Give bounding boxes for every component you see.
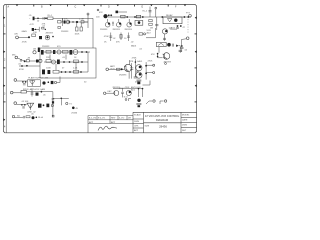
node (45, 17, 47, 19)
wire vertical (87, 52, 89, 72)
box (28, 80, 41, 87)
bracket to right (143, 81, 151, 86)
svg-text:2N3393: 2N3393 (170, 29, 178, 31)
svg-text:B 4-171: B 4-171 (98, 118, 106, 120)
transistor Q22 (126, 91, 131, 96)
wire (109, 68, 125, 70)
resistor R20 (46, 50, 51, 53)
dashed wire (187, 19, 189, 34)
svg-text:47K: 47K (116, 42, 120, 44)
resistor R23 (53, 70, 59, 73)
svg-text:29436: 29436 (71, 112, 78, 114)
capacitor (172, 44, 173, 47)
wire (128, 19, 130, 22)
wire (18, 58, 25, 61)
capacitor (23, 84, 26, 85)
wire (27, 92, 53, 117)
svg-text:C: C (75, 5, 77, 8)
wire (118, 19, 120, 22)
resistor R5 (80, 23, 82, 27)
svg-text:2N3393: 2N3393 (61, 31, 69, 33)
node (35, 29, 36, 30)
terminal (66, 102, 68, 104)
svg-text:2N3393: 2N3393 (46, 33, 54, 35)
svg-text:100K: 100K (46, 68, 51, 70)
wire (146, 64, 153, 66)
node (157, 53, 159, 55)
svg-text:RL-A: RL-A (38, 116, 43, 119)
terminal (165, 63, 167, 65)
node (45, 29, 46, 30)
svg-text:D: D (108, 5, 110, 8)
transistor Q1 (66, 20, 70, 24)
svg-text:470K: 470K (135, 81, 140, 83)
wire emitter down (128, 72, 130, 79)
svg-text:ANTI: ANTI (110, 65, 115, 68)
zone tick marks top (16, 5, 186, 7)
terminal E9 (164, 100, 166, 102)
svg-text:MIC: MIC (12, 55, 16, 57)
svg-text:29436: 29436 (159, 124, 167, 128)
module box (40, 48, 96, 78)
transistor dot (42, 81, 45, 84)
node (134, 16, 136, 18)
node (52, 36, 54, 38)
node (157, 56, 159, 58)
capacitor blob (137, 82, 140, 85)
wire (182, 39, 187, 45)
node (76, 21, 78, 23)
capacitor C9a (57, 60, 60, 65)
node (61, 71, 63, 73)
transistor Q6 (105, 22, 110, 27)
svg-text:470K: 470K (104, 36, 109, 38)
svg-text:2.2K: 2.2K (73, 68, 78, 70)
svg-text:DIAGRAM: DIAGRAM (156, 118, 168, 122)
border frame inner left line (5, 5, 7, 133)
capacitor C5a (116, 11, 119, 14)
capacitor (180, 47, 183, 48)
wire (53, 18, 93, 48)
zone numbers left (4, 25, 6, 129)
svg-text:APP: APP (111, 121, 116, 124)
wire (18, 36, 29, 38)
svg-text:.05 10K: .05 10K (21, 101, 29, 103)
node (25, 81, 27, 83)
wire stub (118, 11, 127, 13)
svg-text:47K: 47K (130, 61, 134, 63)
capacitor C9 (42, 70, 45, 75)
capacitor blob (138, 105, 141, 107)
node (43, 104, 45, 106)
wire branch (53, 97, 69, 99)
capacitor between (136, 71, 139, 72)
node (135, 61, 137, 63)
capacitor blob (38, 48, 40, 53)
node (126, 16, 128, 18)
wire (13, 92, 21, 94)
wire (44, 61, 88, 63)
node (86, 51, 88, 53)
svg-text:SCALE: SCALE (134, 114, 141, 117)
capacitor C4 (110, 14, 112, 16)
capacitor C2b (39, 36, 42, 39)
node (121, 68, 123, 70)
resistor R28 (26, 116, 30, 118)
transistor dot (72, 107, 75, 110)
svg-text:N.O.: N.O. (124, 97, 129, 99)
diode inside (167, 19, 172, 22)
transistor dot (137, 99, 140, 102)
svg-text:6AU6: 6AU6 (131, 44, 137, 47)
wire stub 1 (146, 101, 152, 104)
transistor Q10 (162, 29, 167, 34)
svg-text:2N3393: 2N3393 (113, 29, 121, 31)
wire link rows in module (49, 55, 51, 60)
resistor R22b (74, 60, 79, 63)
capacitor C3 (108, 14, 110, 16)
transistor ring (33, 51, 36, 54)
svg-text:SPKR: SPKR (23, 89, 29, 91)
wire (106, 92, 114, 94)
transistor dot inside (174, 19, 177, 22)
node (161, 16, 163, 18)
border frame outer (3, 5, 196, 133)
node (81, 61, 83, 63)
svg-text:1M: 1M (150, 28, 153, 30)
svg-text:2N3393: 2N3393 (100, 29, 108, 31)
capacitor blob (46, 104, 49, 108)
node (72, 21, 73, 22)
anti-trip box T1 (163, 17, 182, 24)
transistor dot (32, 116, 35, 119)
capacitor (23, 116, 24, 118)
resistor R19 (26, 60, 29, 62)
terminal E7 (12, 115, 14, 117)
svg-text:4.7K: 4.7K (30, 24, 35, 26)
transistor Q17 (163, 53, 170, 60)
node (24, 60, 26, 62)
capacitor bottom (137, 80, 142, 81)
svg-text:100K: 100K (75, 34, 80, 36)
svg-text:DWN: DWN (134, 121, 139, 123)
transistor Q21 (114, 91, 119, 96)
terminal (155, 7, 157, 9)
terminal E6 (14, 102, 17, 105)
svg-text:470K: 470K (19, 69, 24, 71)
resistor R21 (63, 50, 69, 53)
capacitor bars (136, 103, 141, 104)
transistor Q12 (57, 50, 61, 54)
resistor R31a (117, 68, 121, 70)
terminal (153, 72, 155, 74)
svg-text:6AL5: 6AL5 (137, 60, 143, 63)
node (138, 88, 140, 90)
wire vertical (60, 98, 62, 105)
svg-text:RELAY: RELAY (166, 14, 173, 17)
wire (19, 65, 40, 67)
node (145, 65, 147, 67)
transistor Q11 ring (39, 59, 42, 62)
node (21, 104, 23, 106)
capacitor C8 (70, 50, 73, 55)
resistor riser (120, 33, 122, 41)
corner wire with ring (129, 99, 132, 102)
capacitor (176, 28, 179, 29)
relay RL1 coil (48, 17, 53, 20)
zone tick marks right (195, 17, 197, 103)
terminal ring (54, 81, 56, 83)
mark (52, 115, 54, 117)
node (145, 73, 147, 75)
capacitor C3a (64, 20, 66, 23)
capacitor C8a (53, 50, 55, 54)
wire (146, 28, 155, 38)
wire (158, 47, 160, 53)
svg-text:MODEL: MODEL (182, 115, 190, 117)
resistor R26 (21, 91, 27, 94)
resistor R5b (58, 26, 61, 28)
terminal (97, 9, 99, 11)
node (69, 71, 71, 73)
resistor R9 (121, 15, 125, 18)
svg-text:470K: 470K (148, 60, 153, 62)
capacitor (163, 38, 166, 39)
terminal E2 (186, 37, 189, 40)
node (65, 71, 67, 73)
capacitor C7 (41, 50, 44, 55)
diode (176, 45, 179, 47)
svg-text:SHT: SHT (182, 130, 187, 132)
capacitor C5 on riser (149, 7, 151, 18)
capacitor (31, 93, 34, 94)
svg-text:470K: 470K (22, 41, 27, 43)
node (24, 104, 26, 106)
node (80, 71, 82, 73)
svg-text:470K: 470K (132, 57, 137, 59)
node (26, 65, 28, 67)
svg-text:2N3393: 2N3393 (42, 46, 50, 48)
wire (57, 77, 60, 83)
resistor R10 (136, 15, 140, 18)
wire (15, 117, 23, 119)
wire (35, 17, 48, 19)
wire branch (62, 18, 64, 22)
node (181, 45, 183, 47)
signature (98, 126, 117, 130)
transistor Q15 (124, 64, 131, 71)
wire vertical (31, 89, 33, 97)
svg-text:1M: 1M (33, 49, 36, 51)
terminal (87, 13, 89, 15)
svg-text:DR: DR (128, 118, 132, 120)
diode in box (30, 81, 36, 85)
capacitor on riser (156, 17, 158, 30)
wire right riser (145, 62, 147, 80)
capacitor C2 (32, 28, 34, 31)
jack J1 (16, 36, 19, 39)
node (142, 16, 144, 18)
node (22, 81, 24, 83)
wire (163, 34, 165, 41)
transistor Q5 (103, 14, 107, 18)
svg-text:22K: 22K (46, 57, 50, 59)
resistor R3 (81, 21, 84, 23)
wire (43, 51, 90, 53)
capacitor C9b (48, 70, 51, 74)
wire (158, 53, 163, 58)
transistor Q12b (73, 50, 78, 55)
terminal E3 (14, 79, 17, 82)
contact box K1 (156, 42, 166, 46)
svg-text:A7 VOX ANTI-VOX CONTROL: A7 VOX ANTI-VOX CONTROL (145, 115, 180, 118)
resistor R24b (74, 70, 79, 73)
jack J3 (15, 56, 18, 59)
node (21, 65, 23, 67)
resistor R22 (46, 60, 51, 63)
capacitor C6 (36, 60, 39, 63)
resistor R1 (42, 27, 44, 29)
wire (38, 27, 40, 32)
svg-text:2N3393: 2N3393 (119, 75, 127, 77)
svg-text:REV: REV (111, 118, 116, 120)
svg-text:TO: TO (69, 103, 72, 105)
capacitor C17 (121, 89, 124, 98)
node (69, 61, 71, 63)
node (28, 36, 30, 38)
svg-text:6-172: 6-172 (119, 118, 125, 120)
node (41, 91, 43, 93)
wire (16, 104, 26, 106)
svg-text:A 2-170: A 2-170 (89, 117, 97, 120)
transistor Q13 (52, 60, 56, 64)
capacitor (20, 59, 21, 62)
capacitor blob (36, 93, 39, 96)
node (61, 98, 63, 100)
zone letters top (8, 5, 178, 8)
terminal E8 (153, 100, 155, 102)
wire (17, 80, 28, 82)
svg-text:47K: 47K (45, 77, 49, 79)
wire bus upper (61, 21, 88, 23)
capacitor C1 (33, 17, 35, 21)
transistor Q8 (127, 22, 132, 27)
svg-text:47K: 47K (14, 33, 18, 35)
svg-text:2.2M: 2.2M (79, 19, 84, 21)
svg-text:SIZE: SIZE (145, 126, 150, 128)
capacitor blob (51, 81, 54, 84)
wire top (113, 88, 143, 90)
capacitor on riser (52, 99, 55, 100)
capacitor pair left column (149, 20, 152, 22)
title block frame (133, 112, 197, 133)
svg-text:GAIN: GAIN (22, 30, 28, 33)
wire (59, 71, 88, 73)
svg-text:PLATE SUPPLY: PLATE SUPPLY (28, 76, 44, 79)
wire (34, 28, 39, 30)
transformer T2 (27, 103, 34, 108)
capacitor C11 (134, 77, 138, 78)
svg-text:47K: 47K (151, 54, 155, 56)
wire (62, 18, 64, 26)
wire left riser (131, 63, 133, 79)
terminal ring (51, 104, 53, 106)
terminal (153, 64, 155, 66)
svg-text:DATE: DATE (182, 119, 188, 122)
svg-text:KEY: KEY (108, 91, 113, 93)
terminal E1 (189, 15, 192, 18)
terminal (144, 33, 146, 35)
svg-text:CHK: CHK (134, 126, 139, 128)
capacitor blob (38, 104, 42, 108)
transistor dot (167, 43, 171, 47)
node (142, 88, 144, 90)
svg-text:2N3393: 2N3393 (125, 29, 133, 31)
svg-text:47K: 47K (99, 12, 103, 14)
wire collector (129, 60, 131, 64)
svg-text:DWG: DWG (182, 125, 187, 127)
node (48, 81, 50, 83)
transistor Q7 (117, 22, 122, 27)
wire rail (108, 16, 191, 18)
transistor Q3 (45, 35, 50, 40)
svg-text:47K: 47K (64, 19, 68, 21)
node (180, 25, 182, 27)
capacitor C7b (127, 33, 130, 42)
resistor R2 (58, 20, 61, 23)
node (36, 117, 38, 119)
terminal E5 (10, 91, 13, 94)
terminal E4 (106, 68, 109, 71)
wire vertical (87, 15, 89, 28)
capacitor C7a (109, 33, 112, 42)
capacitor (22, 107, 25, 108)
capacitor C1b (43, 17, 44, 20)
zone tick marks left (4, 17, 6, 121)
capacitor C6a (112, 22, 114, 27)
small box (139, 33, 143, 35)
wire (179, 46, 180, 53)
wire (107, 19, 109, 22)
svg-text:ADJ: ADJ (147, 31, 151, 34)
node (187, 16, 189, 18)
transistor Q19 (136, 72, 142, 78)
node (63, 61, 65, 63)
capacitor (179, 50, 182, 51)
resistor R6 (32, 34, 36, 37)
relay RL2 coil (135, 21, 143, 26)
transistor Q18 (136, 65, 142, 71)
wire (146, 72, 153, 74)
terminal E10 (104, 92, 106, 94)
wire (84, 21, 88, 23)
node (81, 51, 83, 53)
wire risers (138, 89, 140, 97)
table frame (88, 116, 133, 133)
blob on riser (52, 101, 54, 103)
svg-text:APP: APP (134, 129, 139, 132)
wire stub 2 (160, 101, 164, 104)
wire riser (134, 59, 136, 77)
node (177, 25, 179, 27)
resistor R4 (76, 23, 78, 27)
node (37, 18, 39, 20)
node (184, 16, 186, 18)
wire (29, 60, 36, 62)
svg-text:APP: APP (89, 121, 94, 124)
